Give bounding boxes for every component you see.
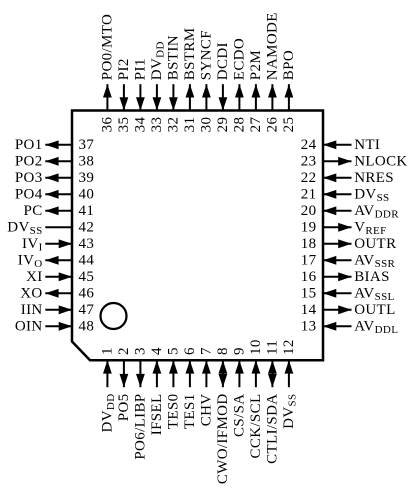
wire pin 3 [139,360,141,387]
svg-text:20: 20 [301,203,317,219]
svg-text:PO2: PO2 [15,153,43,169]
pin 9 CS/SA [231,347,247,437]
svg-text:22: 22 [301,170,317,186]
pin 2 PO5 [116,347,132,421]
svg-text:PO5: PO5 [116,394,132,422]
arrowhead pin 48 (input, points right into chip) [59,322,72,331]
arrowhead pin 8 (bidirectional, points down) [219,374,228,387]
pin 4 IFSEL [149,347,165,435]
pin 10 CCK/SCL [248,339,264,458]
pin 16 BIAS [301,269,390,285]
pin 44 IVO [18,252,95,270]
wire pin 42 [45,226,72,228]
wire pin 18 [323,243,352,245]
svg-text:17: 17 [301,252,317,268]
svg-text:24: 24 [301,137,317,153]
wire pin 34 [139,84,141,110]
svg-text:CHV: CHV [198,394,214,427]
svg-text:41: 41 [79,203,95,219]
arrowhead pin 28 (output, points up) [235,84,244,97]
svg-text:48: 48 [79,318,95,334]
arrowhead pin 46 (output, points left) [45,289,58,298]
svg-text:1: 1 [99,347,115,355]
arrowhead pin 36 (output, points up) [103,84,112,97]
svg-text:37: 37 [79,137,95,153]
arrowhead pin 38 (output, points left) [45,157,58,166]
pin 46 XO [20,285,94,301]
svg-text:BSTRM: BSTRM [182,28,198,81]
wire pin 26 [271,84,273,110]
wire pin 30 [205,84,207,110]
wire pin 13 [323,325,352,327]
pin 17 AVSSR [301,252,396,270]
svg-text:IFSEL: IFSEL [149,394,165,436]
arrowhead pin 7 (input, points up into chip) [202,360,211,373]
pin 48 OIN [15,318,94,334]
svg-text:OIN: OIN [15,318,43,334]
wire pin 39 [45,177,72,179]
svg-text:40: 40 [79,186,95,202]
svg-text:PO1: PO1 [15,137,43,153]
pin 14 OUTL [301,302,396,318]
svg-text:43: 43 [79,236,95,252]
arrowhead pin 26 (output, points up) [268,84,277,97]
svg-text:BPO: BPO [281,50,297,80]
svg-text:DVDD: DVDD [149,41,167,80]
svg-text:15: 15 [301,285,317,301]
wire pin 29 [222,84,224,110]
svg-text:CCK/SCL: CCK/SCL [248,394,264,459]
pin 39 PO3 [15,170,94,186]
pin 22 NRES [301,170,394,186]
svg-text:SYNCF: SYNCF [198,30,214,80]
svg-text:TES0: TES0 [165,394,181,430]
pin 19 VREF [301,219,387,237]
svg-text:XO: XO [20,285,42,301]
svg-text:PO0/MTO: PO0/MTO [99,14,115,80]
arrowhead pin 25 (output, points up) [285,84,294,97]
pin 13 AVDDL [301,318,399,336]
svg-text:32: 32 [165,117,181,133]
wire pin 15 [323,292,352,294]
pin 12 DVSS [281,339,299,429]
svg-text:25: 25 [281,117,297,133]
arrowhead pin 33 (input, points down into chip) [153,97,162,110]
svg-text:33: 33 [149,117,165,133]
svg-text:PO4: PO4 [15,186,43,202]
wire pin 40 [45,193,72,195]
wire pin 1 [106,360,108,387]
arrowhead pin 16 (output, points right) [338,272,351,281]
pin 45 XI [26,269,94,285]
pin 26 NAMODE [264,12,280,132]
arrowhead pin 41 (output, points left) [45,206,58,215]
arrowhead pin 24 (input, points left into chip) [323,140,336,149]
wire pin 38 [45,160,72,162]
pin 15 AVSSL [301,285,395,303]
wire pin 36 [106,84,108,110]
arrowhead pin 12 (input, points up into chip) [285,360,294,373]
wire pin 37 [45,144,72,146]
svg-text:OUTR: OUTR [354,236,396,252]
wire pin 35 [123,84,125,110]
pin 40 PO4 [15,186,94,202]
svg-text:46: 46 [79,285,95,301]
svg-text:16: 16 [301,269,317,285]
arrowhead pin 47 (input, points right into chip) [59,305,72,314]
svg-text:42: 42 [79,219,95,235]
pin 21 DVSS [301,186,390,204]
arrowhead pin 27 (output, points up) [252,84,261,97]
wire pin 19 [323,226,352,228]
arrowhead pin 32 (input, points down into chip) [169,97,178,110]
pin 3 PO6/LIBP [132,347,148,460]
arrowhead pin 30 (output, points up) [202,84,211,97]
wire pin 5 [172,360,174,387]
svg-text:NRES: NRES [354,170,394,186]
pin 38 PO2 [15,153,94,169]
svg-text:4: 4 [149,347,165,355]
arrowhead pin 43 (input, points right into chip) [59,239,72,248]
pin 29 DCDI [215,42,231,132]
wire pin 10 [255,360,257,387]
pin 7 CHV [198,347,214,426]
wire pin 12 [288,360,290,387]
svg-text:AVDDL: AVDDL [354,318,398,336]
svg-text:45: 45 [79,269,95,285]
pin 42 DVSS [7,219,94,237]
svg-text:21: 21 [301,186,317,202]
pin 37 PO1 [15,137,94,153]
svg-text:38: 38 [79,153,95,169]
pin 11 CTLI/SDA [264,340,280,464]
svg-text:14: 14 [301,302,317,318]
svg-text:28: 28 [231,117,247,133]
svg-text:CS/SA: CS/SA [231,394,247,437]
wire pin 8 [222,360,224,387]
svg-text:5: 5 [165,347,181,355]
svg-text:29: 29 [215,117,231,133]
arrowhead pin 11 (input, points up into chip) [268,360,277,373]
svg-text:18: 18 [301,236,317,252]
svg-text:19: 19 [301,219,317,235]
svg-text:PC: PC [24,203,43,219]
svg-text:PI2: PI2 [116,58,132,80]
wire pin 31 [189,84,191,110]
svg-text:36: 36 [99,117,115,133]
arrowhead pin 10 (input, points up into chip) [252,360,261,373]
wire pin 32 [172,84,174,110]
arrowhead pin 21 (input, points left into chip) [323,190,336,199]
wire pin 22 [323,177,352,179]
svg-text:35: 35 [116,117,132,133]
wire pin 23 [323,160,352,162]
svg-text:47: 47 [79,302,95,318]
arrowhead pin 3 (output, points down) [136,374,145,387]
arrowhead pin 22 (input, points left into chip) [323,173,336,182]
pin 32 BSTIN [165,35,181,132]
pin 33 DVDD [149,41,167,132]
svg-text:31: 31 [182,117,198,133]
arrowhead pin 8 (input, points up into chip) [219,360,228,373]
svg-text:7: 7 [198,347,214,355]
pin-1 index circle [101,303,127,329]
wire pin 14 [323,309,352,311]
arrowhead pin 4 (input, points up into chip) [153,360,162,373]
arrowhead pin 18 (output, points right) [338,239,351,248]
pin 23 NLOCK [301,153,408,169]
arrowhead pin 45 (input, points right into chip) [59,272,72,281]
arrowhead pin 31 (output, points up) [186,84,195,97]
arrowhead pin 19 (output, points right) [338,223,351,232]
arrowhead pin 39 (output, points left) [45,173,58,182]
arrowhead pin 14 (output, points right) [338,305,351,314]
pin 41 PC [24,203,95,219]
wire pin 17 [323,259,352,261]
svg-text:DCDI: DCDI [215,42,231,80]
svg-text:2: 2 [116,347,132,355]
arrowhead pin 17 (input, points left into chip) [323,256,336,265]
arrowhead pin 34 (input, points down into chip) [136,97,145,110]
svg-text:NLOCK: NLOCK [354,153,407,169]
wire pin 33 [156,84,158,110]
svg-text:CWO/IFMOD: CWO/IFMOD [215,394,231,485]
wire pin 20 [323,210,352,212]
arrowhead pin 35 (input, points down into chip) [120,97,129,110]
arrowhead pin 37 (output, points left) [45,140,58,149]
svg-text:PO6/LIBP: PO6/LIBP [132,394,148,460]
arrowhead pin 2 (output, points down) [120,374,129,387]
chip body U1 (QFP-48 package outline, chamfered bottom-left corner) [72,111,323,361]
pin 31 BSTRM [182,28,198,133]
pin 36 PO0/MTO [99,14,115,133]
svg-text:VREF: VREF [354,219,386,237]
svg-text:9: 9 [231,347,247,355]
svg-text:PO3: PO3 [15,170,43,186]
arrowhead pin 15 (input, points left into chip) [323,289,336,298]
svg-text:NTI: NTI [354,137,380,153]
wire pin 6 [189,360,191,387]
pin 35 PI2 [116,58,132,132]
arrowhead pin 1 (input, points up into chip) [103,360,112,373]
svg-text:XI: XI [26,269,43,285]
svg-text:NAMODE: NAMODE [264,12,280,80]
svg-text:44: 44 [79,252,95,268]
wire pin 27 [255,84,257,110]
pin 1 DVDD [99,347,117,432]
pin 43 IVI [22,236,94,254]
svg-text:8: 8 [215,347,231,355]
arrowhead pin 40 (output, points left) [45,190,58,199]
pin 28 ECDO [231,38,247,132]
wire pin 41 [45,210,72,212]
wire pin 4 [156,360,158,387]
wire pin 45 [45,276,72,278]
arrowhead pin 13 (input, points left into chip) [323,322,336,331]
svg-text:23: 23 [301,153,317,169]
wire pin 47 [45,309,72,311]
pin 34 PI1 [132,58,148,132]
arrowhead pin 44 (output, points left) [45,256,58,265]
wire pin 46 [45,292,72,294]
svg-text:13: 13 [301,318,317,334]
svg-text:PI1: PI1 [132,58,148,80]
pin 18 OUTR [301,236,397,252]
arrowhead pin 6 (input, points up into chip) [186,360,195,373]
pin 5 TES0 [165,347,181,429]
svg-text:BIAS: BIAS [354,269,390,285]
svg-text:AVDDR: AVDDR [354,203,399,221]
wire pin 44 [45,259,72,261]
wire pin 43 [45,243,72,245]
svg-text:ECDO: ECDO [231,38,247,80]
arrowhead pin 5 (input, points up into chip) [169,360,178,373]
svg-text:BSTIN: BSTIN [165,35,181,80]
arrowhead pin 9 (input, points up into chip) [235,360,244,373]
pin 25 BPO [281,50,297,132]
wire pin 21 [323,193,352,195]
svg-text:34: 34 [132,117,148,133]
wire pin 25 [288,84,290,110]
svg-text:DVDD: DVDD [99,394,117,433]
pin 8 CWO/IFMOD [215,347,231,484]
wire pin 28 [238,84,240,110]
arrowhead pin 20 (input, points left into chip) [323,206,336,215]
pin 30 SYNCF [198,30,214,132]
svg-text:26: 26 [264,117,280,133]
svg-text:TES1: TES1 [182,394,198,430]
svg-text:10: 10 [248,339,264,355]
svg-text:DVSS: DVSS [281,394,299,429]
svg-text:12: 12 [281,339,297,355]
svg-text:CTLI/SDA: CTLI/SDA [264,394,280,464]
arrowhead pin 23 (output, points right) [338,157,351,166]
pin 24 NTI [301,137,380,153]
pin 47 IIN [21,302,95,318]
svg-text:11: 11 [264,340,280,355]
pin 27 P2M [248,50,264,132]
svg-text:DVSS: DVSS [354,186,389,204]
wire pin 24 [323,144,352,146]
wire pin 16 [323,276,352,278]
svg-text:6: 6 [182,347,198,355]
svg-text:P2M: P2M [248,50,264,80]
svg-text:AVSSR: AVSSR [354,252,395,270]
wire pin 11 [271,360,273,387]
svg-text:39: 39 [79,170,95,186]
svg-text:OUTL: OUTL [354,302,395,318]
svg-text:3: 3 [132,347,148,355]
wire pin 7 [205,360,207,387]
svg-text:DVSS: DVSS [7,219,42,237]
svg-text:IVO: IVO [18,252,43,270]
svg-text:27: 27 [248,117,264,133]
wire pin 2 [123,360,125,387]
svg-text:IVI: IVI [22,236,43,254]
pin 6 TES1 [182,347,198,429]
arrowhead pin 29 (input, points down into chip) [219,97,228,110]
wire pin 9 [238,360,240,387]
pin 20 AVDDR [301,203,399,221]
svg-text:IIN: IIN [21,302,43,318]
wire pin 48 [45,325,72,327]
svg-text:30: 30 [198,117,214,133]
svg-text:AVSSL: AVSSL [354,285,394,303]
arrowhead pin 11 (bidirectional, points down) [268,374,277,387]
